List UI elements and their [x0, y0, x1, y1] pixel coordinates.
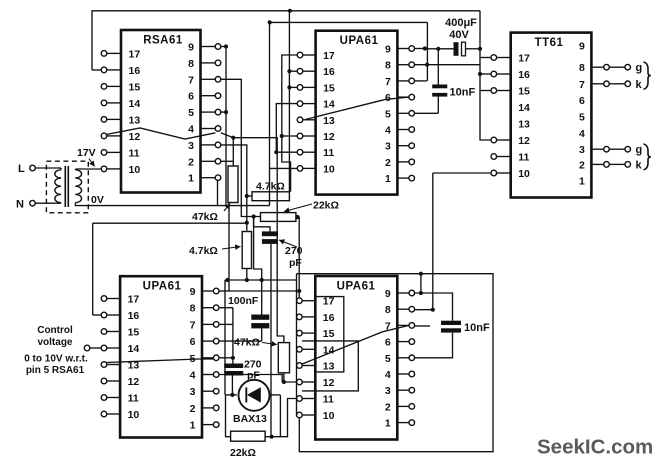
svg-text:16: 16 [323, 66, 335, 78]
svg-text:11: 11 [323, 394, 334, 406]
svg-text:0 to 10V w.r.t.: 0 to 10V w.r.t. [24, 354, 88, 365]
svg-text:Control: Control [37, 325, 73, 336]
svg-text:3: 3 [385, 385, 391, 397]
svg-text:12: 12 [518, 135, 530, 147]
svg-text:12: 12 [323, 377, 335, 389]
svg-text:16: 16 [518, 69, 530, 81]
svg-text:8: 8 [188, 58, 194, 70]
svg-text:2: 2 [188, 156, 194, 168]
svg-text:16: 16 [128, 310, 140, 322]
svg-text:7: 7 [579, 79, 585, 91]
svg-text:14: 14 [518, 102, 530, 114]
svg-text:14: 14 [129, 98, 141, 110]
svg-text:9: 9 [190, 286, 196, 298]
svg-text:10nF: 10nF [464, 322, 490, 334]
svg-text:8: 8 [385, 60, 391, 72]
svg-text:6: 6 [385, 92, 391, 104]
svg-text:4: 4 [188, 124, 194, 136]
svg-text:13: 13 [323, 115, 335, 127]
svg-text:7: 7 [190, 319, 196, 331]
svg-text:9: 9 [385, 288, 391, 300]
svg-text:10: 10 [323, 163, 335, 175]
svg-text:14: 14 [323, 99, 335, 111]
svg-text:10: 10 [128, 409, 140, 421]
svg-text:RSA61: RSA61 [143, 35, 183, 47]
svg-text:13: 13 [129, 114, 141, 126]
svg-text:k: k [636, 79, 643, 91]
svg-text:3: 3 [385, 141, 391, 153]
svg-text:5: 5 [188, 107, 194, 119]
svg-text:12: 12 [128, 376, 140, 388]
svg-text:6: 6 [579, 95, 585, 107]
svg-text:12: 12 [323, 131, 335, 143]
svg-text:40V: 40V [449, 29, 469, 41]
svg-text:5: 5 [579, 111, 585, 123]
svg-text:3: 3 [579, 144, 585, 156]
svg-text:2: 2 [385, 401, 391, 413]
svg-text:100nF: 100nF [228, 295, 259, 307]
svg-text:270: 270 [285, 245, 303, 257]
svg-text:17V: 17V [77, 147, 96, 159]
svg-text:6: 6 [385, 337, 391, 349]
svg-text:22kΩ: 22kΩ [313, 200, 339, 212]
svg-text:voltage: voltage [37, 337, 72, 348]
svg-text:6: 6 [190, 336, 196, 348]
svg-text:400μF: 400μF [445, 17, 477, 29]
svg-text:L: L [18, 163, 25, 175]
svg-text:13: 13 [323, 361, 335, 373]
svg-text:UPA61: UPA61 [143, 281, 182, 293]
svg-text:2: 2 [385, 157, 391, 169]
svg-text:15: 15 [129, 81, 141, 93]
svg-text:9: 9 [385, 44, 391, 56]
svg-text:17: 17 [128, 294, 140, 306]
svg-text:7: 7 [188, 74, 194, 86]
svg-text:14: 14 [128, 343, 140, 355]
svg-text:UPA61: UPA61 [337, 281, 376, 293]
svg-text:10: 10 [129, 164, 141, 176]
svg-text:13: 13 [518, 119, 530, 131]
svg-text:10: 10 [323, 410, 335, 422]
svg-text:9: 9 [188, 42, 194, 54]
svg-text:0V: 0V [91, 194, 104, 206]
svg-text:3: 3 [190, 386, 196, 398]
svg-text:22kΩ: 22kΩ [230, 447, 256, 459]
svg-text:11: 11 [323, 147, 334, 159]
svg-text:10nF: 10nF [450, 87, 476, 99]
svg-text:1: 1 [188, 173, 194, 185]
svg-text:2: 2 [190, 403, 196, 415]
svg-text:17: 17 [518, 53, 530, 65]
svg-text:6: 6 [188, 91, 194, 103]
svg-text:15: 15 [323, 82, 335, 94]
svg-text:4.7kΩ: 4.7kΩ [256, 181, 285, 193]
svg-text:9: 9 [579, 41, 585, 53]
svg-text:47kΩ: 47kΩ [192, 211, 218, 223]
svg-text:15: 15 [323, 328, 335, 340]
svg-text:4: 4 [579, 128, 585, 140]
svg-text:TT61: TT61 [535, 37, 564, 49]
svg-text:15: 15 [518, 86, 530, 98]
svg-text:12: 12 [129, 131, 141, 143]
svg-text:4: 4 [385, 125, 391, 137]
svg-text:5: 5 [385, 108, 391, 120]
svg-text:16: 16 [323, 312, 335, 324]
svg-text:47kΩ: 47kΩ [234, 337, 260, 349]
svg-text:BAX13: BAX13 [233, 413, 267, 425]
svg-text:N: N [16, 199, 24, 211]
svg-text:4: 4 [385, 369, 391, 381]
svg-text:4: 4 [190, 370, 196, 382]
svg-text:15: 15 [128, 327, 140, 339]
svg-text:1: 1 [385, 173, 391, 185]
svg-text:pF: pF [289, 257, 302, 269]
svg-text:1: 1 [385, 418, 391, 430]
svg-text:17: 17 [323, 296, 335, 308]
svg-text:8: 8 [190, 303, 196, 315]
svg-text:17: 17 [129, 48, 141, 60]
svg-text:k: k [636, 159, 643, 171]
svg-text:1: 1 [190, 420, 196, 432]
svg-text:11: 11 [129, 147, 140, 159]
svg-text:g: g [636, 62, 643, 74]
svg-text:7: 7 [385, 76, 391, 88]
svg-text:8: 8 [579, 62, 585, 74]
svg-text:g: g [636, 144, 643, 156]
svg-text:SeekIC.com: SeekIC.com [537, 436, 653, 459]
svg-text:3: 3 [188, 140, 194, 152]
svg-text:5: 5 [385, 353, 391, 365]
svg-text:UPA61: UPA61 [340, 35, 379, 47]
svg-text:10: 10 [518, 168, 530, 180]
svg-text:11: 11 [128, 393, 139, 405]
svg-text:8: 8 [385, 304, 391, 316]
svg-text:1: 1 [579, 176, 585, 188]
svg-text:2: 2 [579, 159, 585, 171]
svg-text:4.7kΩ: 4.7kΩ [189, 245, 218, 257]
svg-text:pin 5 RSA61: pin 5 RSA61 [26, 365, 85, 376]
svg-text:17: 17 [323, 50, 335, 62]
svg-text:11: 11 [518, 152, 529, 164]
svg-text:16: 16 [129, 65, 141, 77]
